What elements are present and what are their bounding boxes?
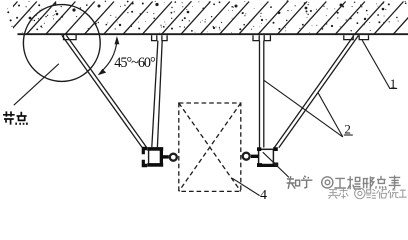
concrete stipple dots: [7, 0, 406, 33]
underline of label 2: [344, 134, 353, 136]
wing nut ring R1: [170, 154, 177, 161]
watermark at-sign and gongchengnadianshi: [322, 175, 401, 189]
dashed square panel (item 4): [179, 103, 241, 191]
anchor plate P3 tabs (right hanger): [253, 35, 270, 40]
hanger rod 1 (slightly slanted double line): [152, 41, 162, 148]
svg-text:1: 1: [390, 76, 397, 91]
text jiedian bottom dots: [15, 123, 27, 125]
clamp C1: [142, 147, 177, 167]
leader line for node bubble: [14, 64, 59, 105]
detail circle (node bubble): [23, 5, 100, 82]
anchor plate P2 tabs (middle hanger): [152, 35, 167, 40]
dimension arc 45..60: [101, 42, 117, 72]
text jiedian (node): [3, 111, 27, 124]
leaders for label 2: [264, 80, 343, 136]
leader for label 4: [232, 178, 259, 195]
diagonal brace B (double line): [274, 35, 358, 147]
hanger rod 2 (vertical double line): [260, 41, 264, 148]
leader for label 1: [362, 40, 397, 88]
slab soffit line: [18, 33, 408, 35]
svg-text:4: 4: [260, 188, 267, 203]
diagonal brace A (double line): [62, 35, 147, 147]
arc arrowheads: [98, 36, 120, 75]
wing nut ring R2: [243, 153, 250, 160]
ceiling slab hatching: [0, 2, 408, 35]
leader with arrow into clamp C2: [263, 152, 289, 177]
anchor plate P4 (far right, for diagonal brace): [344, 35, 369, 39]
clamp C2: [243, 147, 278, 167]
anchor plate P1 (left, for diagonal brace): [64, 35, 77, 40]
svg-text:2: 2: [344, 122, 351, 137]
watermark zhihu line: [287, 176, 313, 189]
watermark toutiao line (outlined): [328, 188, 406, 198]
svg-text:45°~60°: 45°~60°: [114, 55, 155, 71]
